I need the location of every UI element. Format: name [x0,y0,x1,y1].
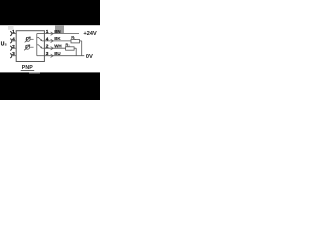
wire RL2 to drop [74,47,76,49]
switch S2 to pin 2 [37,45,45,49]
svg-text:L: L [69,44,71,48]
svg-text:1: 1 [46,29,49,35]
wire WH row [44,47,65,49]
wire stub left pin 3 [12,55,17,57]
transistor symbol Q1 [25,37,31,43]
svg-text:BU: BU [54,51,61,56]
wire stub left pin 1 [12,33,17,35]
wire RL1 to drop [80,40,82,42]
gray artifact strip in bottom bar [29,72,40,73]
wire BN row [44,33,79,35]
arrow on BK wire [51,39,54,42]
resistor RL2 [66,47,75,50]
svg-text:BN: BN [54,29,61,34]
connector arc pin 2 [10,46,12,50]
arrow on BN wire [51,32,54,35]
gray highlight patch over BN [55,25,64,33]
light gray artifact patch left [8,25,14,30]
link Q1 to rail [30,38,33,40]
underline of PNP [21,70,35,72]
sensor box outline [16,31,44,62]
background [0,0,100,100]
svg-text:3: 3 [46,51,49,57]
svg-text:WH: WH [54,44,62,49]
svg-text:0V: 0V [86,54,93,60]
resistor RL1 [71,40,80,43]
svg-text:4: 4 [12,37,15,43]
top black bar [0,0,100,25]
svg-text:s: s [5,43,7,47]
transistor symbol Q2 [24,45,30,51]
internal wire pin3 [37,55,45,57]
svg-text:L: L [74,36,76,40]
vertical drop RL2 [75,48,77,56]
switch S1 to pin 4 [37,37,45,41]
svg-text:3: 3 [12,51,15,57]
arrow on WH wire [51,47,54,50]
svg-text:BK: BK [54,36,61,41]
link Q2 to rail [30,46,34,48]
connector arc pin 4 [10,39,12,43]
vertical drop RL1 [81,41,83,56]
arrow on BU wire [51,54,54,57]
svg-text:2: 2 [46,44,49,50]
svg-text:4: 4 [46,36,49,42]
bottom black bar [0,72,100,100]
wire BU row / 0V rail [44,55,84,57]
svg-text:1: 1 [12,29,15,35]
wire stub left pin 4 [12,40,17,42]
internal vertical rail [36,34,38,56]
wire BK row [44,40,71,42]
wire stub left pin 2 [12,47,17,49]
connector arc pin 1 [10,31,12,35]
connector arc pin 3 [10,54,12,58]
svg-text:+24V: +24V [83,31,97,37]
svg-text:2: 2 [12,44,15,50]
internal wire pin1 [37,33,45,35]
